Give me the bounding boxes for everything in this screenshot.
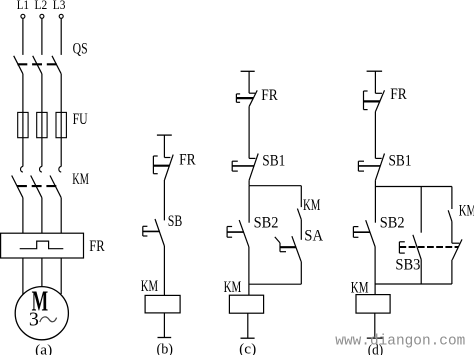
wire L3 to QS [60,19,62,55]
stop button SB1 (c) fixed tick [249,157,255,159]
selector SA operator stem [279,243,281,252]
svg-text:SB2: SB2 [254,215,279,232]
coil KM (d) [356,295,390,314]
wire KM to FR pole 1 [22,198,24,234]
svg-text:SB1: SB1 [389,152,412,169]
svg-text:QS: QS [73,40,88,57]
svg-text:FR: FR [179,152,196,169]
stop button SB1 (d) fixed tick [375,157,381,159]
thermal contact FR (c) bracket [235,94,237,102]
selector SA operator handle [275,237,280,243]
aux contact KM (d) blade [448,210,452,221]
wire (b) FR to SB [163,180,165,220]
thermal contact FR (d) blade [376,90,385,111]
control rail terminal (d top) [367,70,383,72]
KM main linkage dashed line [17,185,58,187]
svg-text:SA: SA [304,227,324,244]
svg-text:3: 3 [29,309,39,331]
wire QS to FU pole 3 [60,74,62,167]
thermal contact FR (b) actuator bar [153,165,169,167]
wire (c) SB1 to node [248,180,250,185]
stop button SB1 (c) blade [249,154,258,181]
aux contact KM (c) blade [297,209,301,220]
wire (d) SB3 NC to rail [451,260,453,284]
wire QS to FU pole 2 [41,74,43,167]
svg-text:KM: KM [459,202,474,219]
svg-text:FR: FR [390,86,407,103]
svg-text:KM: KM [351,279,369,296]
svg-text:L1: L1 [17,0,29,12]
thermal contact FR (b) blade [165,155,174,180]
wire (c) SB2 to coil node [248,247,250,295]
start button SB2 (d) operator arm [353,231,370,233]
fuse FU pole 3 [56,112,66,137]
terminal L2 [40,14,44,18]
wire (d) node to SB2 [374,187,376,223]
wire (d) rail to FR [374,71,376,93]
stop button SB1 (c) operator arm [232,165,254,167]
wire FR to motor 3 [60,258,62,294]
wire L1 to QS [22,19,24,55]
wire (c) SA to rail [300,261,302,284]
motor M1 circle [15,287,68,340]
selector SA operator bar [280,246,296,248]
wire (b) SB to KM coil [163,246,165,295]
coil KM (c) [229,295,263,313]
svg-text:(c): (c) [239,342,256,355]
coil KM (b) [145,295,180,313]
wire (d) middle branch down [420,187,422,233]
wire (d) coil to bottom [374,313,376,338]
wire (c) KM aux to SA [300,220,302,240]
svg-text:FR: FR [89,238,105,255]
selector SA blade [292,236,301,261]
thermal contact FR (b) bracket [152,156,154,174]
QS linkage dashed line [17,63,58,65]
branch bottom rail (d) [375,283,452,285]
thermal contact FR (d) bracket [363,91,365,110]
contactor KM main contact 3 arc [59,166,61,172]
svg-text:SB2: SB2 [380,215,405,232]
start button SB2 (d) operator bracket [352,227,354,238]
thermal contact FR (c) blade [249,90,257,106]
wire FR to motor 1 [22,258,24,295]
branch bottom rail (c) [249,283,301,285]
SB3 NC contact fixed tick [452,242,460,244]
branch wire (d) node to right [375,186,452,188]
pushbutton SB operator bracket [142,226,144,236]
wire (d) KM aux to SB3 NC [451,221,453,243]
svg-text:KM: KM [141,278,158,295]
wire KM to FR pole 2 [41,198,43,234]
fuse FU pole 2 [37,112,47,137]
svg-text:(a): (a) [35,342,52,355]
svg-text:www.diangon.com: www.diangon.com [335,333,465,349]
start button SB2 (c) operator arm [227,231,244,233]
fuse FU pole 1 [18,112,28,137]
wire (b) rail to FR [163,135,165,157]
contactor KM main contact 1 blade [12,176,23,198]
motor tilde symbol [40,317,57,322]
thermal contact FR (b) fixed tick [164,157,170,159]
wire QS to FU pole 1 [22,74,24,167]
wire L2 to QS [41,19,43,55]
contactor KM main contact 3 blade [50,176,61,198]
switch QS pole 1 blade [14,56,23,74]
branch wire (c) node to right [249,185,301,187]
thermal relay FR heater box [1,233,84,258]
svg-text:L2: L2 [35,0,48,12]
jog button SB3 blade [413,235,421,260]
control rail terminal (d bottom) [367,337,383,339]
FR heater element symbol [20,241,64,249]
wire (c) node to SB2 [248,186,250,223]
control rail terminal (c bottom) [241,337,255,339]
svg-text:L3: L3 [53,0,66,12]
control rail terminal (b bottom) [158,337,172,339]
svg-text:FU: FU [73,111,88,128]
svg-text:SB3: SB3 [395,257,420,274]
terminal L3 [59,14,63,18]
wire (d) SB2 to coil node [374,247,376,295]
stop button SB1 (d) blade [375,154,384,181]
thermal contact FR (d) fixed tick [375,92,382,94]
thermal contact FR (d) actuator bar [364,100,381,102]
wire (d) SB3 to rail [420,260,422,285]
contactor KM main contact 2 arc [40,166,42,172]
start button SB2 (c) operator bracket [226,227,228,238]
svg-text:FR: FR [261,87,278,104]
start button SB2 (c) blade [239,220,249,247]
mechanical linkage dashed line (SB3) [399,246,458,248]
thermal contact FR (c) fixed tick [249,92,255,94]
SB3 NC contact blade [452,239,462,259]
contactor KM main contact 2 blade [31,176,42,198]
start button SB2 (d) blade [366,220,376,247]
svg-text:KM: KM [303,197,321,214]
wire (d) right branch down [451,187,453,210]
stop button SB1 (c) operator bracket [231,161,233,171]
control rail terminal (c top) [241,70,255,72]
switch QS pole 2 blade [33,56,42,74]
svg-text:SB1: SB1 [262,152,285,169]
wire (b) coil to bottom [163,313,165,338]
svg-text:(b): (b) [157,342,174,355]
wire (c) coil to bottom [247,313,249,338]
stop button SB1 (d) operator bracket [357,161,359,171]
jog button SB3 operator bracket [398,242,400,253]
terminal L1 [21,14,25,18]
wire (c) rail to FR [248,71,250,93]
wire (c) right branch down [300,186,302,207]
wire KM to FR pole 3 [60,198,62,234]
pushbutton SB operator arm [143,230,160,232]
pushbutton SB blade [155,219,164,246]
thermal contact FR (c) actuator bar [236,97,253,99]
selector SA operator tick [280,251,286,253]
wire FR to motor 2 [41,258,43,287]
contactor KM main contact 1 arc [21,166,23,172]
wire (c) FR to SB1 [248,106,250,158]
wire (d) FR to SB1 [374,112,376,159]
control rail terminal (b top) [157,134,172,136]
svg-text:KM: KM [72,171,89,188]
stop button SB1 (d) operator arm [358,165,380,167]
wire (d) SB1 to node [374,180,376,186]
switch QS pole 3 blade [52,56,61,74]
svg-text:SB: SB [168,213,183,230]
svg-text:KM: KM [224,279,242,296]
